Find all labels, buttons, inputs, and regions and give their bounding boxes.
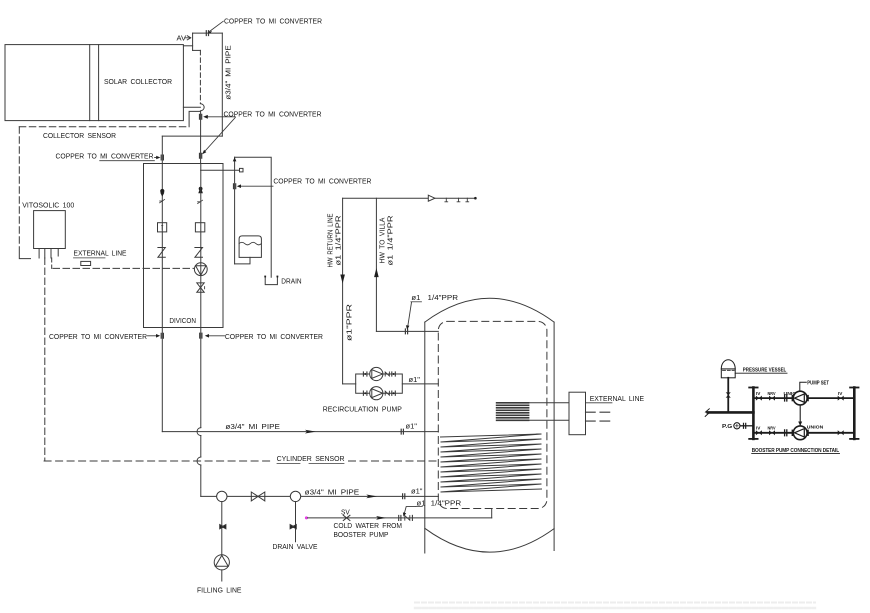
air vent AV riser xyxy=(192,33,194,50)
svg-text:SV: SV xyxy=(341,507,350,516)
union fittings top branch xyxy=(363,372,367,376)
cylinder sensor dashed line xyxy=(44,460,272,462)
svg-text:ø1 1/4"PPR: ø1 1/4"PPR xyxy=(334,215,343,266)
svg-text:COLLECTOR SENSOR: COLLECTOR SENSOR xyxy=(43,131,117,140)
recirculation pump B xyxy=(370,387,383,400)
svg-text:DRAIN VALVE: DRAIN VALVE xyxy=(273,542,318,551)
svg-text:ø3/4" MI PIPE: ø3/4" MI PIPE xyxy=(225,422,280,431)
svg-text:VITOSOLIC 100: VITOSOLIC 100 xyxy=(22,201,74,210)
main feed thick xyxy=(708,411,754,414)
check valve + union bottom xyxy=(385,391,389,395)
svg-text:COPPER TO MI CONVERTER: COPPER TO MI CONVERTER xyxy=(56,151,155,160)
valve small on filling branch xyxy=(220,524,226,529)
expansion vessel pipe riser xyxy=(234,157,236,264)
pipe cold (left) drop xyxy=(161,136,163,432)
node cold water start (magenta) xyxy=(305,516,308,519)
solar collector panel xyxy=(5,45,183,121)
wire dashed corner to controller xyxy=(19,254,30,259)
svg-text:ø1: ø1 xyxy=(417,498,426,507)
left header xyxy=(752,388,755,439)
svg-text:COPPER TO MI CONVERTER: COPPER TO MI CONVERTER xyxy=(273,177,372,186)
svg-text:BOOSTER PUMP CONNECTION DETAIL: BOOSTER PUMP CONNECTION DETAIL xyxy=(752,448,840,454)
svg-text:COPPER TO MI CONVERTER: COPPER TO MI CONVERTER xyxy=(49,332,148,341)
svg-text:ø3/4" MI PIPE: ø3/4" MI PIPE xyxy=(224,45,233,100)
wire jump arc over outlet stub xyxy=(200,104,204,111)
pipe lower fill line xyxy=(201,495,438,497)
interpump link xyxy=(799,405,801,425)
pump set pump B xyxy=(791,430,793,435)
svg-text:COPPER TO MI CONVERTER: COPPER TO MI CONVERTER xyxy=(224,109,323,118)
wire jump over supply line xyxy=(197,428,201,436)
faint cropped text strip at bottom xyxy=(415,602,815,604)
heater leads to external box xyxy=(529,402,569,404)
flow arrow xyxy=(376,516,386,520)
tank drain nozzle xyxy=(235,257,250,264)
external connection box xyxy=(569,392,586,435)
svg-text:1/4"PPR: 1/4"PPR xyxy=(428,293,459,302)
collector sensor dashed line under panel xyxy=(19,126,189,128)
thermometer well left xyxy=(158,223,167,232)
pipe HW return line xyxy=(342,198,344,384)
wire overflow to drain xyxy=(235,157,272,277)
converter fitting xyxy=(401,429,403,434)
wire jump over sensor dashed xyxy=(197,457,201,465)
heating coil xyxy=(441,434,542,492)
converter fitting on left pipe xyxy=(161,155,163,160)
filling pump xyxy=(214,555,229,570)
flow arrow open xyxy=(428,195,435,201)
check valve + union top xyxy=(385,372,389,376)
svg-text:ø1": ø1" xyxy=(411,486,423,495)
svg-text:COPPER TO MI CONVERTER: COPPER TO MI CONVERTER xyxy=(225,332,324,341)
small expansion tank xyxy=(239,236,261,258)
valve on stem xyxy=(726,392,731,397)
svg-text:DRAIN: DRAIN xyxy=(281,276,301,285)
flow arrow xyxy=(366,495,377,499)
svg-text:CYLINDER SENSOR: CYLINDER SENSOR xyxy=(277,454,346,463)
collector sensor capillary (dashed in collector) xyxy=(199,50,201,103)
sensor stub with pocket xyxy=(201,169,240,171)
pipe HW to villa riser xyxy=(375,198,377,331)
valve IV top xyxy=(756,396,762,401)
valve small on drain branch xyxy=(290,524,296,529)
pipe hot riser through box down xyxy=(200,164,202,428)
union circle 1 xyxy=(217,491,227,501)
pressure vessel xyxy=(721,360,735,369)
union bottom xyxy=(785,430,787,436)
wire top header pipe xyxy=(193,32,223,34)
svg-text:PUMP SET: PUMP SET xyxy=(807,381,829,387)
svg-text:COLD WATER FROM: COLD WATER FROM xyxy=(334,521,403,530)
valve NRV top xyxy=(769,396,775,401)
valve IV top right xyxy=(838,396,844,401)
check valve / flow indicator right (up) xyxy=(198,186,203,193)
svg-text:1/4"PPR: 1/4"PPR xyxy=(431,498,462,507)
valve IV bottom right xyxy=(838,430,844,435)
flex connector Z right xyxy=(195,248,203,258)
svg-text:COPPER TO MI CONVERTER: COPPER TO MI CONVERTER xyxy=(224,17,323,26)
pipe hot riser from collector xyxy=(200,111,202,164)
converter fitting on vessel riser xyxy=(234,184,236,189)
branch bottom xyxy=(753,432,854,434)
svg-text:DIVICON: DIVICON xyxy=(169,316,196,325)
svg-text:P.G: P.G xyxy=(722,424,732,430)
electric heater element xyxy=(497,403,529,421)
collector outlet stub xyxy=(183,106,200,108)
recirculation loop frame xyxy=(356,374,403,393)
svg-text:PRESSURE VESSEL: PRESSURE VESSEL xyxy=(743,368,787,374)
wire dashed to divicon pump xyxy=(51,258,53,268)
wire return header to left pipe xyxy=(162,135,222,137)
svg-text:ø1": ø1" xyxy=(406,422,418,431)
converter fitting on hot riser xyxy=(200,114,202,119)
converter fitting on hot riser lower xyxy=(200,153,202,158)
svg-text:ø1: ø1 xyxy=(411,293,420,302)
svg-text:RECIRCULATION PUMP: RECIRCULATION PUMP xyxy=(323,405,402,414)
terminal block xyxy=(81,261,91,265)
pipe loop to tank xyxy=(402,383,438,385)
pipe solar supply to tank xyxy=(162,431,438,433)
svg-text:IV: IV xyxy=(756,426,761,431)
svg-text:EXTERNAL LINE: EXTERNAL LINE xyxy=(590,394,644,403)
svg-text:ø1 1/4"PPR: ø1 1/4"PPR xyxy=(386,215,395,266)
flow arrow xyxy=(305,430,316,434)
check valve / flow indicator left (down) xyxy=(160,189,164,193)
svg-text:ø1": ø1" xyxy=(409,375,421,384)
svg-text:IV: IV xyxy=(838,391,843,396)
union fittings bottom branch xyxy=(363,391,367,395)
right header xyxy=(853,388,856,439)
converter fitting xyxy=(403,494,405,499)
storage tank shell xyxy=(425,298,554,322)
pump set pump A xyxy=(791,396,793,401)
branch top xyxy=(753,397,854,399)
wire dashed drop from sensor line xyxy=(18,127,20,253)
divicon pump station box xyxy=(144,164,224,328)
svg-text:IV: IV xyxy=(756,391,761,396)
svg-text:FILLING LINE: FILLING LINE xyxy=(197,586,242,595)
svg-text:NRV: NRV xyxy=(768,391,776,396)
svg-text:SOLAR COLLECTOR: SOLAR COLLECTOR xyxy=(104,77,173,86)
wires dashed external xyxy=(586,411,610,413)
svg-text:UNION: UNION xyxy=(807,424,824,429)
pipe break symbol xyxy=(705,409,709,417)
valve below pump xyxy=(197,283,204,292)
valve IV bottom xyxy=(756,430,762,435)
converter fitting xyxy=(405,329,407,334)
thermometer well right xyxy=(195,223,204,232)
drain branch xyxy=(295,502,297,542)
pipe villa line into tank xyxy=(376,330,438,332)
pressure gauge P.G xyxy=(741,425,753,427)
controller VITOSOLIC 100 xyxy=(34,211,66,249)
svg-text:BOOSTER PUMP: BOOSTER PUMP xyxy=(334,530,389,539)
header ticks xyxy=(445,198,448,202)
tank inner dashed boundary xyxy=(438,321,547,508)
converter fittings below divicon xyxy=(161,333,163,338)
valve NRV bottom xyxy=(769,430,775,435)
recirculation pump A xyxy=(370,367,383,380)
filling branch xyxy=(221,502,223,555)
pipe 3/4in MI riser down xyxy=(221,33,223,136)
drain funnel xyxy=(265,277,277,285)
svg-text:ø1"PPR: ø1"PPR xyxy=(345,303,354,341)
svg-text:NRV: NRV xyxy=(768,426,776,431)
flex connector Z left xyxy=(158,248,165,258)
svg-text:EXTERNAL LINE: EXTERNAL LINE xyxy=(74,249,127,258)
union circle 2 xyxy=(290,491,300,501)
converter fitting on top pipe xyxy=(206,31,208,36)
wire dashed cylinder sensor drop xyxy=(44,258,46,461)
pipe HW header to villa xyxy=(343,197,476,199)
union top xyxy=(785,395,787,401)
sensor elbow to dashed run xyxy=(189,111,200,126)
wire controller terminals xyxy=(38,249,40,259)
pump P1 in divicon xyxy=(194,263,207,276)
union + check valve fittings xyxy=(399,515,401,520)
gate valve xyxy=(251,492,264,501)
pipe cold water from booster xyxy=(308,517,492,519)
pipe return to recirculation loop xyxy=(343,383,356,385)
svg-text:ø3/4" MI PIPE: ø3/4" MI PIPE xyxy=(305,487,360,496)
vessel stem xyxy=(727,378,729,413)
